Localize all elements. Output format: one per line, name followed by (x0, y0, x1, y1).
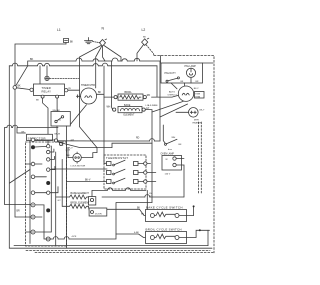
node dot bake (193, 205, 195, 207)
terminal timer relay bottom 2 (56, 95, 59, 98)
console dashed bottom (26, 249, 210, 251)
wire relay feed 1 (39, 66, 41, 84)
svg-text:BK-V: BK-V (68, 148, 74, 150)
terminal selector c1r1 filled (31, 145, 35, 149)
wire panel lamp lead (185, 77, 192, 86)
wire element row1 left (56, 196, 70, 198)
node BK junction on left bus (13, 86, 17, 90)
wire timer motor right lead (97, 66, 105, 163)
wire BR lead (15, 216, 31, 218)
wire L2 to bus (137, 45, 144, 61)
wire broil element left stub (104, 96, 114, 98)
terminal selector c2r6 (47, 191, 50, 194)
wire junction to RD run (58, 140, 104, 142)
wire bake cycle right (179, 207, 194, 216)
terminal selector c2r4 (47, 168, 50, 171)
panel dashed divider (198, 122, 200, 193)
wire selector top row (35, 140, 60, 143)
terminal selector c2r8 minus (46, 237, 51, 241)
wire selector common rail (29, 141, 31, 244)
heater bake element box (118, 107, 142, 113)
svg-text:BROIL CYCLE SWITCH: BROIL CYCLE SWITCH (146, 228, 182, 232)
node N label (102, 27, 105, 31)
wire bake left feed (112, 61, 113, 110)
svg-text:LOCK MOTOR: LOCK MOTOR (71, 165, 86, 167)
terminal selector c1r7 dotted (31, 230, 35, 234)
svg-text:W: W (166, 159, 168, 161)
terminal selector c1r0 (31, 138, 35, 142)
switch bake cycle switch (146, 205, 183, 209)
svg-text:RD: RD (136, 138, 140, 140)
wire right riser to bus (207, 230, 209, 245)
element small box 1 (88, 197, 95, 205)
terminal selector c2r7 filled (46, 208, 50, 212)
wire relay PK stub (68, 89, 80, 91)
wire oven lamp leads right (176, 159, 184, 198)
wire N fan left (80, 46, 102, 112)
switch broil cycle switch (146, 228, 182, 232)
wire relay feed 2 (46, 66, 48, 76)
wire panel box top right (203, 62, 214, 64)
wire broil cycle right (179, 230, 210, 237)
terminal timer relay right (65, 89, 68, 92)
wire timer motor left lead (77, 95, 81, 98)
terminal selector c2r3 (47, 158, 50, 161)
svg-text:4-BK: 4-BK (134, 232, 139, 234)
wire upper bus 2 (9, 63, 157, 66)
svg-text:ELEMENT: ELEMENT (124, 115, 135, 117)
terminal timer relay left (30, 88, 33, 91)
svg-text:WH-BK: WH-BK (53, 110, 61, 112)
switch thermostat row1 (107, 160, 144, 166)
svg-text:TIMER: TIMER (42, 86, 51, 90)
terminal bake right (142, 108, 145, 111)
wire relay bottom1 to selector (43, 98, 48, 144)
svg-text:RD: RD (67, 155, 71, 157)
wire selector minus out (50, 234, 150, 239)
wire bus right riser 1 (156, 66, 158, 97)
wire left bus verticals (8, 66, 10, 248)
wire BK stub to selector (17, 128, 26, 134)
svg-text:BK: BK (98, 92, 102, 94)
wire y195 run (102, 195, 184, 197)
svg-text:RELAY: RELAY (42, 90, 52, 94)
wire mid bus y202 (116, 203, 152, 235)
svg-text:WH: WH (172, 137, 176, 139)
wire lock motor left lead (68, 157, 73, 159)
svg-text:BROIL: BROIL (125, 91, 133, 94)
svg-text:4-PK: 4-PK (72, 236, 77, 238)
svg-text:BK: BK (30, 58, 34, 61)
svg-text:RD: RD (147, 95, 151, 97)
wire N fan mid (103, 46, 106, 61)
wire selector row5 (35, 187, 58, 193)
wire bottom bus 1 (14, 245, 208, 247)
svg-text:BROIL ELEMENT: BROIL ELEMENT (71, 202, 91, 205)
terminal selector c2r1 (47, 145, 50, 148)
switch oven lamp switch (165, 139, 178, 145)
svg-text:BR: BR (17, 211, 21, 213)
switch thermostat row2 (107, 169, 144, 175)
wire riser to oven lamp switch (163, 125, 165, 143)
lamp oven lamp box (161, 153, 175, 156)
svg-text:BAKE CYCLE SWITCH: BAKE CYCLE SWITCH (146, 205, 183, 209)
wire junction diagonal to bus (16, 66, 28, 86)
svg-text:BAKE: BAKE (124, 104, 131, 107)
node dot broil (199, 229, 201, 231)
terminal thermostat row1 (144, 162, 147, 165)
terminal L2 junction diamond (142, 38, 149, 45)
wire bus right riser 2 (159, 61, 161, 141)
thermostat dashed box (104, 155, 146, 189)
svg-text:TIMER MTR: TIMER MTR (81, 84, 95, 87)
wire oven light diagonals (152, 101, 183, 112)
wire panel switch lead (171, 83, 177, 89)
lamp panel lamp (186, 68, 195, 77)
motor timer motor (81, 88, 97, 104)
wire broil right to oven light (152, 95, 179, 97)
wire mid vertical x68 (67, 148, 69, 158)
wire selector row2 left (26, 163, 43, 165)
wire selector row1 link (35, 145, 47, 148)
svg-text:N: N (102, 27, 105, 31)
terminal broil left (114, 96, 117, 99)
wire RD run to console (104, 139, 160, 141)
terminal N junction diamond (100, 39, 107, 46)
terminal selector c1r2 (31, 162, 35, 166)
terminal selector c1r6 dotted (31, 215, 35, 219)
wire contact box diagonal to motor (70, 105, 86, 125)
switch panel (166, 77, 179, 82)
terminal L1 connector (64, 39, 69, 45)
wire junction diagonal to steps (58, 142, 97, 148)
wire L1 to left bus (15, 44, 66, 66)
wire selector row4 link (35, 176, 47, 178)
terminal selector c3r0 (54, 139, 57, 142)
svg-text:BAKE ELEMENT: BAKE ELEMENT (71, 192, 90, 195)
wire bake right down (145, 110, 152, 203)
wire thermostat row1 stub (104, 162, 107, 164)
svg-text:BK: BK (18, 85, 22, 87)
terminal selector c1r5 dotted (31, 203, 35, 207)
svg-text:PNL LAMP: PNL LAMP (185, 65, 197, 68)
svg-text:TRIM: TRIM (195, 96, 200, 98)
terminal thermostat row3 (144, 180, 147, 183)
console dashed border top right (154, 56, 214, 253)
node L1 label (57, 28, 61, 32)
wire contact box left exit (5, 125, 59, 204)
terminal broil right (143, 96, 146, 99)
svg-text:BK: BK (143, 37, 146, 39)
lamp oven light (178, 86, 193, 101)
svg-text:TIME: TIME (195, 94, 200, 96)
wire contact box bottom right down (66, 126, 68, 248)
wire N fan right (104, 46, 121, 62)
node L2 label (142, 28, 146, 32)
svg-text:BK-V: BK-V (85, 180, 91, 182)
svg-text:BK: BK (179, 144, 182, 146)
heater element row2 (71, 202, 91, 205)
switch thermostat row3 (107, 178, 144, 184)
wire contact box bottom to selector junction (56, 126, 58, 140)
terminal selector c2r2 (47, 150, 50, 153)
wire selector verticals (50, 146, 52, 232)
wire selector to thermostat row2 (51, 168, 107, 170)
svg-text:L1A 3-WIRE: L1A 3-WIRE (146, 104, 159, 107)
box door switch (89, 208, 107, 216)
wire upper bus 1 (28, 58, 160, 66)
wire element row2 left (62, 206, 89, 210)
svg-text:PNL DUTY: PNL DUTY (165, 73, 177, 75)
terminal oven lamp 1 (173, 157, 176, 160)
svg-text:HEATER: HEATER (193, 121, 202, 124)
wire motor steps (81, 143, 152, 157)
wire vertical x147 (146, 190, 148, 209)
relay TIMER RELAY box (34, 84, 65, 96)
motor door motor heater (189, 108, 199, 118)
svg-text:BK-W: BK-W (55, 134, 60, 136)
resistor broil element (120, 95, 141, 99)
wire console top to panel box (160, 56, 162, 64)
svg-text:MTR: MTR (194, 119, 199, 121)
wire thermostat rights (147, 164, 156, 182)
wire relay bottom 2 down (56, 98, 58, 111)
svg-text:BK: BK (36, 99, 39, 101)
panel box PNL (161, 63, 203, 83)
heater bake element coil (121, 109, 140, 111)
terminal timer relay bottom 1 (41, 95, 44, 98)
terminal selector c1r3 (31, 175, 35, 179)
wire L2 to console (dashed) (146, 45, 154, 56)
terminal small box1 (90, 198, 93, 201)
terminal selector c2r5 filled (46, 181, 50, 185)
svg-text:BK: BK (70, 42, 74, 44)
selector label (27, 134, 53, 140)
ground chassis (85, 38, 101, 44)
wire thermostat row3 feed (67, 181, 107, 183)
terminal selector c1r4 (31, 191, 35, 195)
wire fan riser to steps (80, 111, 98, 148)
wire selector diagonal (10, 170, 30, 184)
selector dashed box (26, 142, 67, 246)
svg-text:THERMOSTAT: THERMOSTAT (106, 156, 128, 160)
svg-text:120 V: 120 V (165, 173, 171, 175)
wire BK to bake cycle (107, 209, 151, 215)
svg-text:OVEN LAMP: OVEN LAMP (161, 153, 175, 156)
svg-text:BK: BK (137, 207, 141, 209)
terminal chassis ground plus (45, 76, 79, 80)
wire N fan mid-left (96, 46, 102, 88)
box time trim (195, 92, 205, 99)
svg-text:GY: GY (58, 200, 62, 202)
wire junction to timer relay (17, 88, 30, 90)
svg-text:BK-Y: BK-Y (200, 110, 205, 112)
motor door lock motor (73, 152, 81, 163)
terminal thermostat row2 (144, 171, 147, 174)
wire bottom bus 2 (9, 247, 212, 249)
terminal bake left (113, 108, 116, 111)
relay contact box (51, 112, 70, 127)
svg-text:BR: BR (196, 81, 199, 83)
svg-text:BK-Y: BK-Y (194, 88, 199, 90)
wire motor heater left lead (176, 111, 189, 113)
thermostat label (106, 156, 128, 160)
resistor broil element box (118, 94, 143, 100)
wire under thermostat humps (92, 188, 146, 197)
wire selector hooks (50, 149, 55, 170)
switch relay contact (55, 116, 64, 123)
svg-text:b+w: b+w (168, 149, 172, 151)
svg-text:DOOR: DOOR (95, 214, 102, 216)
svg-text:AUTO: AUTO (169, 90, 175, 93)
svg-text:PK: PK (68, 88, 71, 90)
svg-text:WH: WH (107, 107, 111, 109)
heater element row1 (71, 192, 90, 195)
svg-text:OVEN LT: OVEN LT (168, 94, 178, 96)
svg-text:L1: L1 (57, 28, 61, 32)
terminal selector c3r1 (59, 142, 62, 145)
wire selector c1r5 taps (26, 205, 52, 239)
svg-text:L2: L2 (142, 28, 146, 32)
terminal oven lamp 2 (173, 163, 176, 166)
